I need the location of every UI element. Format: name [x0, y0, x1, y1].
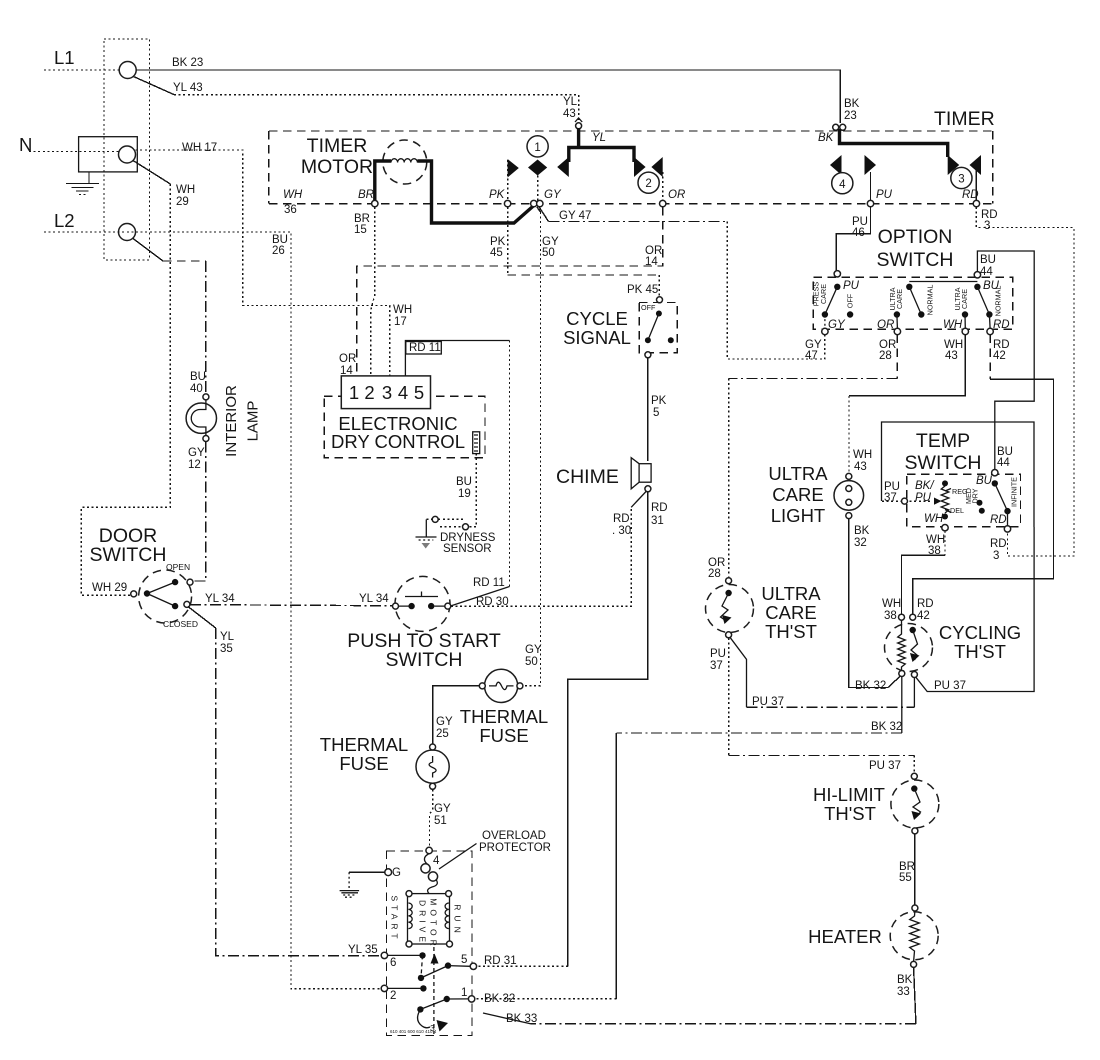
electronic dry control box U1 — [324, 396, 485, 457]
svg-text:RD: RD — [613, 513, 630, 525]
svg-text:31: 31 — [651, 515, 664, 527]
label GY 50 (fuse) — [525, 644, 542, 668]
svg-text:36: 36 — [284, 204, 297, 216]
label ELECTRONIC DRY CONTROL — [331, 413, 465, 452]
label DOOR SWITCH — [90, 525, 167, 566]
svg-text:RD: RD — [990, 514, 1007, 526]
svg-text:DEL: DEL — [950, 506, 964, 515]
option contact B (ultra care / normal) — [894, 282, 978, 329]
svg-text:47: 47 — [805, 350, 818, 362]
label PU 37 (ultra care) — [710, 648, 726, 672]
svg-text:5: 5 — [461, 954, 467, 966]
neutral junction box — [79, 137, 138, 172]
label MED DRY (rotated) — [964, 488, 980, 504]
wire PU 37 (ultra to cycling) — [730, 637, 914, 707]
overload protector OL1 — [421, 854, 438, 894]
label BR 15 — [354, 213, 370, 236]
label WH 43 (option) — [944, 339, 963, 362]
label DEL — [950, 506, 964, 515]
svg-text:SIGNAL: SIGNAL — [563, 327, 631, 348]
label CLOSED — [163, 619, 198, 629]
svg-text:WH: WH — [853, 449, 872, 461]
label INFINITE (rotated) — [1010, 477, 1019, 507]
terminal OR (option) — [877, 319, 901, 335]
svg-text:ULTRA: ULTRA — [761, 583, 821, 604]
label MOTOR (rotated) — [429, 898, 439, 949]
svg-text:BK: BK — [818, 132, 835, 144]
label BK/PU — [915, 480, 935, 504]
push to start switch S2 — [393, 576, 451, 631]
label TEMP SWITCH — [905, 430, 982, 474]
terminal PU (timer) — [867, 189, 892, 207]
label CYCLING TH'ST — [939, 622, 1021, 662]
svg-text:43: 43 — [563, 108, 576, 120]
label YL 35 (door) — [220, 631, 235, 655]
label WH (temp) — [924, 513, 944, 525]
svg-text:GY 47: GY 47 — [559, 210, 591, 222]
label GY 47 (option) — [805, 339, 822, 362]
terminal WH (temp) — [942, 525, 948, 531]
connector J1 (pins 1-5) — [341, 376, 430, 409]
terminal 5 (motor) — [461, 954, 477, 970]
centrifugal switch upper — [388, 952, 471, 981]
svg-text:L2: L2 — [54, 210, 75, 231]
svg-text:5: 5 — [414, 382, 424, 403]
label THERMAL FUSE (upper) — [460, 706, 548, 746]
svg-text:PK: PK — [489, 189, 506, 201]
terminal block TB1 — [104, 39, 150, 260]
svg-text:BU: BU — [456, 476, 472, 488]
chime LS1 — [631, 458, 651, 492]
svg-text:RD 31: RD 31 — [484, 955, 517, 967]
label BU 44 (option) — [980, 254, 996, 278]
wire OR 28 — [729, 335, 898, 578]
label RD 42 (cycling) — [917, 598, 934, 622]
svg-text:RD: RD — [651, 502, 668, 514]
terminal 6 (motor) — [381, 952, 396, 969]
svg-text:37: 37 — [710, 660, 723, 672]
svg-text:38: 38 — [884, 610, 897, 622]
label RUN (rotated) — [453, 904, 463, 937]
wire BU 40 lamp feed — [133, 239, 206, 394]
svg-text:MOTOR: MOTOR — [429, 898, 439, 949]
svg-text:42: 42 — [917, 610, 930, 622]
svg-text:GY: GY — [188, 447, 205, 459]
svg-text:CARE: CARE — [895, 289, 904, 309]
temp contact BU arm — [976, 475, 1011, 526]
wire BU 44 — [977, 251, 1034, 470]
svg-text:YL 35: YL 35 — [348, 944, 378, 956]
svg-text:YL 34: YL 34 — [205, 593, 235, 605]
label ULTRA CARE B (rotated) — [888, 287, 904, 310]
label PK 45 (cycle signal) — [627, 284, 658, 296]
label BK 32 (motor) — [484, 993, 515, 1005]
label OPTION SWITCH — [877, 226, 954, 271]
label PRESS CARE (rotated) — [812, 282, 828, 307]
terminal GY (timer) — [531, 189, 562, 207]
svg-text:YL: YL — [592, 132, 606, 144]
svg-text:BK 32: BK 32 — [855, 680, 886, 692]
wire GY 50 fuse link — [433, 686, 483, 744]
label WH 29 (door) — [92, 582, 127, 594]
svg-text:BR: BR — [358, 189, 374, 201]
label TIMER — [934, 108, 995, 130]
svg-text:TEMP: TEMP — [916, 430, 970, 452]
wire WH 29 — [81, 161, 170, 596]
svg-text:RD 11: RD 11 — [473, 577, 505, 589]
terminal 1 (motor) — [461, 987, 475, 1002]
svg-text:50: 50 — [525, 656, 538, 668]
svg-text:DRIVE: DRIVE — [418, 900, 428, 946]
timer block outline — [269, 131, 993, 204]
svg-text:GY: GY — [525, 644, 542, 656]
label ULTRA CARE C (rotated) — [953, 287, 969, 310]
label PK 45 (timer) — [490, 236, 506, 259]
svg-text:L1: L1 — [54, 47, 75, 68]
cycle signal switch S3 — [639, 297, 677, 358]
label BK 32 (callout) — [855, 680, 886, 692]
svg-text:PROTECTOR: PROTECTOR — [479, 842, 551, 854]
svg-text:BK/: BK/ — [915, 480, 935, 492]
motor winding box — [406, 891, 453, 947]
svg-text:SWITCH: SWITCH — [905, 452, 982, 474]
terminal RD (timer) — [973, 200, 979, 206]
svg-text:PK 45: PK 45 — [627, 284, 658, 296]
svg-text:26: 26 — [272, 245, 285, 257]
option switch S4 box — [813, 277, 1012, 329]
label YL 43 (left) — [173, 82, 203, 94]
wire PU 37 (to hi-limit) — [729, 638, 915, 774]
svg-text:50: 50 — [542, 247, 555, 259]
heater R2 — [890, 905, 938, 967]
svg-text:OR: OR — [668, 189, 685, 201]
wire GY 47 — [539, 207, 825, 359]
svg-text:TH'ST: TH'ST — [824, 803, 876, 824]
dryness sensor output element — [473, 432, 480, 454]
svg-text:BK 32: BK 32 — [871, 721, 902, 733]
svg-text:SWITCH: SWITCH — [877, 249, 954, 271]
svg-text:INTERIOR: INTERIOR — [223, 385, 240, 457]
timer motor M1 coil — [375, 140, 535, 223]
terminal RD (temp) — [1004, 526, 1010, 532]
label WH 17 (left) — [182, 142, 217, 154]
wire BK 32 (cycling to motor) — [475, 677, 902, 999]
label RD 3 (timer) — [981, 209, 998, 232]
terminal BR (timer) — [358, 189, 378, 207]
svg-text:CYCLE: CYCLE — [566, 308, 628, 329]
temp switch inner box — [907, 474, 1021, 526]
svg-text:LAMP: LAMP — [245, 401, 262, 442]
timer contact 1 PK flag — [508, 159, 519, 200]
label THERMAL FUSE (lower) — [320, 734, 408, 774]
svg-text:28: 28 — [879, 350, 892, 362]
dryness sensor plates — [426, 516, 468, 536]
label OPEN — [166, 562, 190, 572]
terminal GY (option) — [822, 319, 846, 335]
terminal 4 (motor top) — [426, 847, 440, 867]
label OR 28 (ultra care) — [708, 557, 725, 580]
svg-text:BK 23: BK 23 — [172, 57, 203, 69]
wire PU 37 wiper — [882, 498, 942, 505]
svg-text:BU: BU — [980, 254, 996, 266]
centrifugal switch lower — [417, 996, 468, 1033]
label OFF (rotated) — [846, 293, 855, 308]
svg-text:GY: GY — [544, 189, 562, 201]
svg-text:CLOSED: CLOSED — [163, 619, 198, 629]
svg-text:25: 25 — [436, 728, 449, 740]
svg-text:CYCLING: CYCLING — [939, 622, 1021, 643]
svg-text:3: 3 — [984, 220, 990, 232]
svg-text:OVERLOAD: OVERLOAD — [482, 830, 546, 842]
svg-text:33: 33 — [897, 986, 910, 998]
svg-text:23: 23 — [844, 110, 857, 122]
timer contact 2 OR flag — [638, 157, 663, 200]
wire RD 11 — [405, 341, 509, 607]
label OR 14 (timer) — [645, 245, 662, 268]
ground (dryness sensor) — [416, 537, 437, 549]
wire BK 23 — [136, 70, 840, 123]
svg-text:15: 15 — [354, 224, 367, 236]
svg-text:3: 3 — [382, 382, 392, 403]
label TIMER MOTOR — [301, 135, 373, 178]
wire PU 37 (cycling to temp) — [916, 527, 1035, 692]
wire YL 35 — [188, 607, 380, 956]
svg-text:FUSE: FUSE — [339, 753, 388, 774]
wire GY 12 — [193, 442, 206, 582]
svg-text:WH: WH — [943, 319, 963, 331]
label BU 40 — [190, 371, 206, 395]
label BU 19 — [456, 476, 472, 500]
svg-text:55: 55 — [899, 872, 912, 884]
label GY 47 (timer) — [559, 210, 591, 222]
wire BK 33 — [483, 967, 916, 1023]
svg-text:CHIME: CHIME — [556, 466, 619, 488]
motor assembly box M2 — [387, 851, 473, 1036]
label YL 34 (door) — [205, 593, 235, 605]
svg-text:42: 42 — [993, 350, 1006, 362]
timer contact 4 BK arm — [818, 129, 948, 200]
svg-text:51: 51 — [434, 815, 447, 827]
svg-text:32: 32 — [854, 537, 867, 549]
thermal fuse F2 — [416, 744, 449, 789]
svg-text:. 30: . 30 — [612, 525, 631, 537]
label DRYNESS SENSOR — [440, 532, 496, 555]
wire PK 45 — [508, 207, 660, 297]
svg-text:PU 37: PU 37 — [869, 760, 901, 772]
svg-text:SWITCH: SWITCH — [90, 544, 167, 566]
wire N lead-in — [29, 151, 118, 153]
run winding coil — [445, 903, 449, 929]
terminal BU (temp) — [992, 470, 998, 476]
svg-text:PU: PU — [710, 648, 726, 660]
svg-text:BK: BK — [854, 525, 870, 537]
label RD (temp) — [990, 514, 1007, 526]
door switch S1 — [131, 570, 193, 623]
wire RD 42 — [913, 335, 1054, 615]
temp resistor R1 (reg/del) — [941, 480, 951, 519]
svg-text:PU: PU — [915, 492, 932, 504]
label OVERLOAD PROTECTOR — [439, 830, 551, 869]
wire BK 32 (light to cycling) — [849, 519, 900, 688]
svg-text:PK: PK — [651, 395, 667, 407]
svg-text:43: 43 — [945, 350, 958, 362]
motor internal divider — [433, 947, 435, 1034]
terminal PU (option) — [834, 271, 860, 292]
svg-text:610 401 600 610 410 4: 610 401 600 610 410 4 — [390, 1029, 437, 1034]
wire WH 43 — [849, 335, 965, 474]
svg-text:BU: BU — [190, 371, 206, 383]
svg-text:YL: YL — [220, 631, 235, 643]
label OR 28 (option) — [879, 339, 896, 362]
svg-text:YL 43: YL 43 — [173, 82, 203, 94]
label PU 46 — [852, 216, 868, 239]
label PUSH TO START SWITCH — [347, 630, 501, 671]
terminal OR (timer) — [660, 189, 686, 207]
label BK 23 (right) — [844, 98, 860, 122]
svg-text:TH'ST: TH'ST — [765, 621, 817, 642]
label NORMAL C (rotated) — [993, 286, 1002, 317]
label BK 33 (heater) — [897, 974, 913, 998]
wire RD 3 — [976, 207, 1074, 556]
svg-text:WH: WH — [882, 598, 901, 610]
svg-text:44: 44 — [997, 457, 1010, 469]
motor box part numbers — [390, 1029, 437, 1034]
svg-text:ULTRA: ULTRA — [768, 463, 828, 484]
terminal L1 — [119, 62, 136, 79]
label RD 31 (motor) — [484, 955, 517, 967]
label YL 35 (motor) — [348, 944, 378, 956]
svg-text:46: 46 — [852, 227, 865, 239]
svg-text:45: 45 — [490, 247, 503, 259]
svg-text:OR: OR — [877, 319, 894, 331]
svg-text:CARE: CARE — [819, 284, 828, 304]
label YL 43 (timer) — [563, 96, 578, 120]
option contact C (ultra care / normal) — [962, 284, 993, 329]
svg-text:WH: WH — [393, 304, 412, 316]
ground (motor) — [340, 891, 360, 898]
svg-text:NORMAL: NORMAL — [926, 285, 935, 316]
svg-text:TIMER: TIMER — [307, 135, 368, 157]
label ULTRA CARE LIGHT — [768, 463, 828, 526]
timer contact 1 — [527, 136, 548, 201]
wire PK 5 — [647, 358, 649, 461]
terminal 2 (motor) — [381, 985, 426, 1002]
label CHIME — [556, 466, 619, 488]
svg-text:RD: RD — [990, 538, 1007, 550]
svg-text:RUN: RUN — [453, 904, 463, 937]
svg-text:37: 37 — [884, 492, 897, 504]
wire YL 43 — [134, 77, 579, 122]
terminal G + ground wire — [349, 867, 401, 889]
label REG — [952, 487, 968, 496]
label HEATER — [808, 926, 882, 947]
svg-text:TH'ST: TH'ST — [954, 641, 1006, 662]
svg-text:BU: BU — [983, 280, 1000, 292]
svg-text:GY: GY — [436, 716, 453, 728]
label WH 43 (light) — [853, 449, 872, 473]
svg-text:14: 14 — [645, 256, 658, 268]
svg-text:2: 2 — [645, 178, 651, 190]
label PK 5 — [651, 395, 667, 419]
label START (rotated) — [390, 895, 400, 942]
wire L1 lead-in — [44, 69, 119, 71]
svg-text:SENSOR: SENSOR — [443, 543, 492, 555]
hi-limit thermostat TH3 — [891, 773, 939, 834]
label RD 3 (temp switch) — [990, 538, 1007, 562]
svg-text:FUSE: FUSE — [479, 725, 528, 746]
svg-text:WH 17: WH 17 — [182, 142, 217, 154]
ultra care light DS2 — [834, 473, 864, 518]
label GY 12 — [188, 447, 205, 471]
svg-text:DRY CONTROL: DRY CONTROL — [331, 431, 465, 452]
svg-text:TIMER: TIMER — [934, 108, 995, 130]
svg-text:WH: WH — [176, 184, 195, 196]
terminal L2 — [119, 224, 136, 241]
svg-text:OPTION: OPTION — [878, 226, 953, 248]
svg-text:6: 6 — [390, 957, 396, 969]
label DRIVE (rotated) — [418, 900, 428, 946]
label GY 51 — [434, 803, 451, 827]
label BR 55 — [899, 861, 915, 884]
temp contact mid position — [977, 500, 985, 514]
svg-text:WH: WH — [283, 189, 303, 201]
label RD 11 (control) — [406, 342, 442, 355]
svg-text:17: 17 — [394, 316, 407, 328]
temp switch S5 outer box — [882, 422, 1035, 527]
label WH 17 (control) — [393, 304, 412, 328]
svg-text:RD 11: RD 11 — [409, 342, 441, 354]
wire BU 19 — [469, 454, 477, 527]
svg-text:3: 3 — [958, 174, 964, 186]
svg-text:YL: YL — [563, 96, 578, 108]
svg-text:OFF: OFF — [641, 303, 656, 312]
svg-text:WH 29: WH 29 — [92, 582, 127, 594]
svg-text:RD: RD — [917, 598, 934, 610]
svg-text:MOTOR: MOTOR — [301, 156, 373, 178]
svg-text:START: START — [390, 895, 400, 942]
svg-text:4: 4 — [398, 382, 408, 403]
label RD 42 (option) — [993, 339, 1010, 362]
label GY 50 (timer) — [542, 236, 559, 259]
svg-text:40: 40 — [190, 383, 203, 395]
terminal WH (option) — [943, 319, 969, 335]
svg-text:OR: OR — [339, 353, 356, 365]
svg-text:G: G — [392, 867, 401, 879]
label OR 14 (control) — [339, 353, 356, 377]
svg-text:19: 19 — [458, 488, 471, 500]
label PU 37 (temp) — [884, 481, 900, 504]
svg-text:BK: BK — [844, 98, 860, 110]
svg-text:CARE: CARE — [772, 484, 823, 505]
terminal BU (option) — [974, 272, 999, 292]
wire OR 14 — [357, 207, 663, 376]
terminal RD (option) — [987, 319, 1010, 335]
label BK 32 (light) — [854, 525, 870, 549]
label CYCLE SIGNAL — [563, 308, 631, 348]
wire RD 31 (chime to motor) — [477, 492, 648, 967]
svg-text:BK 33: BK 33 — [506, 1013, 537, 1025]
svg-text:OPEN: OPEN — [166, 562, 190, 572]
wire WH 17 — [136, 150, 390, 376]
svg-text:4: 4 — [433, 855, 440, 867]
ultra care thermostat TH1 — [706, 578, 754, 638]
label RD 30 (chime) — [612, 513, 631, 537]
svg-text:43: 43 — [854, 461, 867, 473]
svg-text:1: 1 — [461, 987, 467, 999]
wire L2 / BU 26 — [44, 232, 381, 989]
wire GY 50 — [524, 207, 541, 686]
interior lamp DS1 — [186, 394, 216, 442]
